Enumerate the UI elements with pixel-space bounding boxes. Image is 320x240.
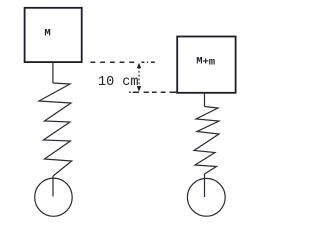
dashed reference line, level of block M+m bottom: [129, 91, 177, 93]
spring S2 (right spring zigzag): [194, 107, 219, 175]
ring/bob B2 (right circle): [187, 178, 225, 216]
dimension arrow (vertical double-headed, dotted): [137, 63, 141, 92]
dashed reference line, level of block M bottom: [91, 61, 155, 63]
spring S1 (left spring zigzag): [39, 83, 72, 176]
svg-text:10 cm: 10 cm: [98, 75, 139, 90]
wire: stub from spring S2 into ring: [204, 174, 206, 197]
svg-text:M+m: M+m: [196, 55, 215, 68]
block M (left mass box): [25, 8, 82, 62]
wire: stub from spring S1 into ring: [52, 176, 54, 197]
ring/bob B1 (left circle): [35, 178, 72, 216]
block M+m (right mass box): [177, 37, 235, 93]
label M: [44, 28, 50, 40]
label M+m: [196, 55, 215, 68]
wire: stub from block M+m to spring: [204, 93, 206, 107]
svg-text:M: M: [44, 28, 50, 40]
label 10 cm: [98, 75, 139, 90]
wire: stub from block M to spring: [52, 62, 54, 83]
